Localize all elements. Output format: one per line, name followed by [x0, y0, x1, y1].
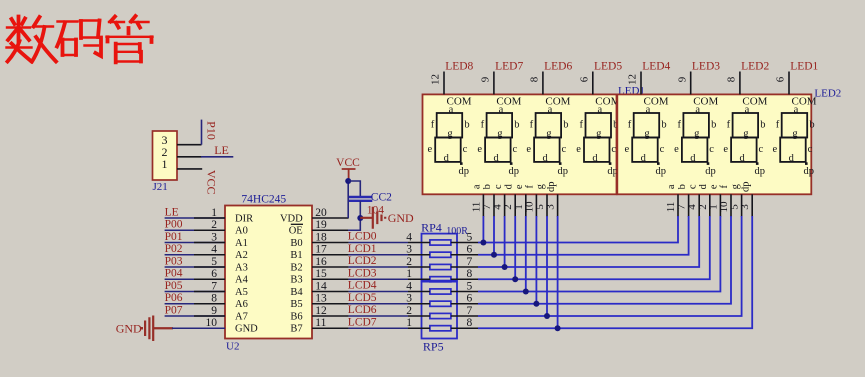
- svg-text:A3: A3: [235, 262, 248, 273]
- svg-text:A1: A1: [235, 238, 248, 249]
- LED2 digit 4 seven-segment glyph: [780, 113, 807, 162]
- svg-text:c: c: [709, 144, 714, 155]
- capacitor CC2 plates: [349, 196, 372, 198]
- svg-text:LED2: LED2: [741, 60, 769, 72]
- RP pin right 5: [451, 242, 478, 244]
- svg-text:P07: P07: [165, 304, 183, 316]
- LED2 segment pin 1 (e): [719, 194, 721, 217]
- junction VCC node: [345, 178, 351, 184]
- svg-text:P06: P06: [165, 292, 183, 304]
- svg-text:b: b: [711, 119, 716, 130]
- svg-text:B6: B6: [290, 311, 302, 322]
- svg-text:8: 8: [467, 268, 473, 280]
- svg-text:A0: A0: [235, 226, 248, 237]
- svg-text:LCD0: LCD0: [348, 231, 377, 243]
- resistor RP5 element 2: [430, 301, 451, 306]
- resistor RP4 element 3: [430, 264, 451, 269]
- junction cap/GND node: [357, 215, 363, 221]
- svg-text:7: 7: [467, 305, 473, 317]
- svg-text:A4: A4: [235, 275, 249, 286]
- svg-text:P05: P05: [165, 280, 183, 292]
- wire LED1 pin 4 vertical: [504, 216, 506, 267]
- svg-text:LED6: LED6: [544, 60, 572, 72]
- RP pin left 3: [408, 254, 430, 256]
- U2 pin 16: [312, 266, 349, 268]
- wire segment row dp (RP output to LED2 pin): [478, 216, 752, 328]
- svg-text:f: f: [628, 119, 632, 130]
- LED1 digit 2 seven-segment glyph: [485, 113, 512, 162]
- wire LED1 pin 2 vertical: [514, 216, 516, 279]
- RP pin left 4: [408, 291, 430, 293]
- svg-text:8: 8: [467, 317, 473, 329]
- svg-text:10: 10: [206, 317, 218, 329]
- resistor RP5 element 1: [430, 289, 451, 294]
- svg-text:c: c: [660, 144, 665, 155]
- svg-text:B4: B4: [290, 287, 303, 298]
- U2 pin 19: [312, 229, 349, 231]
- U2 pin 1: [194, 217, 225, 219]
- svg-text:g: g: [730, 183, 741, 189]
- svg-text:b: b: [464, 119, 469, 130]
- wire VCC to capacitor top: [348, 181, 360, 197]
- svg-text:LCD3: LCD3: [348, 267, 377, 279]
- resistor RP4 element 2: [430, 252, 451, 257]
- LED1 segment pin 7 (b): [493, 194, 495, 217]
- LED2 segment pin 11 (a): [677, 194, 679, 217]
- svg-text:d: d: [690, 153, 696, 164]
- svg-text:9: 9: [211, 305, 217, 317]
- LED1 digit 4 seven-segment glyph: [584, 113, 611, 162]
- wire segment row f (RP output to LED2 pin): [478, 216, 731, 304]
- wire net LE (U2 pin 1): [165, 217, 225, 219]
- svg-text:B7: B7: [290, 324, 302, 335]
- LED display module LED2 body: [617, 94, 811, 194]
- svg-text:5: 5: [467, 280, 473, 292]
- svg-text:b: b: [661, 119, 666, 130]
- wire net LCD6 (U2 pin 12 to RP): [349, 315, 408, 317]
- LED1 segment pin 3 (dp): [557, 194, 559, 217]
- LED2 segment pin 10 (f): [730, 194, 732, 217]
- svg-text:U2: U2: [226, 341, 239, 353]
- svg-text:b: b: [482, 184, 493, 189]
- svg-text:a: a: [794, 104, 799, 115]
- svg-text:6: 6: [211, 268, 217, 280]
- svg-text:d: d: [493, 153, 499, 164]
- wire cap bottom to GND node: [359, 201, 361, 218]
- svg-text:4: 4: [406, 231, 412, 243]
- junction row a / LED1 pin: [480, 240, 486, 246]
- svg-text:c: c: [493, 184, 504, 189]
- svg-text:LED3: LED3: [692, 60, 720, 72]
- wire LED1 pin 3 vertical: [557, 216, 559, 328]
- svg-text:16: 16: [315, 256, 327, 268]
- svg-text:74HC245: 74HC245: [241, 194, 286, 206]
- svg-text:g: g: [535, 183, 546, 189]
- U2 pin 7: [194, 291, 225, 293]
- svg-text:LCD4: LCD4: [348, 280, 377, 292]
- U2 pin 11: [312, 327, 349, 329]
- svg-text:f: f: [431, 119, 435, 130]
- svg-text:dp: dp: [557, 166, 568, 177]
- svg-text:LCD1: LCD1: [348, 243, 377, 255]
- svg-text:P03: P03: [165, 255, 183, 267]
- svg-text:12: 12: [315, 305, 327, 317]
- wire net P05 (U2 pin 7): [165, 291, 225, 293]
- wire net P02 (U2 pin 4): [165, 254, 225, 256]
- LED2 digit 1 seven-segment glyph: [632, 113, 659, 162]
- svg-text:17: 17: [315, 244, 327, 256]
- svg-text:B2: B2: [290, 262, 302, 273]
- svg-text:c: c: [687, 184, 698, 189]
- svg-text:P01: P01: [165, 231, 183, 243]
- svg-text:12: 12: [627, 74, 639, 85]
- svg-text:LCD5: LCD5: [348, 292, 377, 304]
- svg-text:LCD6: LCD6: [348, 304, 377, 316]
- svg-text:14: 14: [315, 280, 327, 292]
- svg-text:d: d: [542, 153, 548, 164]
- svg-text:c: c: [758, 144, 763, 155]
- svg-text:e: e: [514, 184, 525, 189]
- wire net P04 (U2 pin 6): [165, 278, 225, 280]
- LED1 segment pin 11 (a): [482, 194, 484, 217]
- svg-text:b: b: [514, 119, 519, 130]
- svg-text:GND: GND: [388, 211, 414, 225]
- svg-text:g: g: [694, 128, 700, 139]
- svg-text:a: a: [449, 104, 454, 115]
- svg-text:g: g: [792, 128, 798, 139]
- svg-text:LE: LE: [165, 206, 179, 218]
- svg-text:1: 1: [406, 317, 412, 329]
- svg-text:dp: dp: [546, 182, 557, 193]
- svg-text:a: a: [745, 104, 750, 115]
- RP pin left 1: [408, 327, 430, 329]
- LED2 segment pin 2 (d): [709, 194, 711, 217]
- svg-text:e: e: [674, 144, 679, 155]
- LED2 digit 2 seven-segment glyph: [682, 113, 709, 162]
- U2 pin 18: [312, 242, 349, 244]
- wire GND to U2 pin10: [172, 327, 225, 329]
- svg-text:a: a: [646, 104, 651, 115]
- RP pin right 8: [451, 278, 478, 280]
- svg-text:c: c: [808, 144, 813, 155]
- svg-text:3: 3: [739, 204, 751, 210]
- svg-text:7: 7: [467, 256, 473, 268]
- wire net P07 (U2 pin 9): [165, 315, 225, 317]
- svg-text:c: c: [463, 144, 468, 155]
- LED1 digit 4 COM pin: [592, 72, 594, 95]
- wire LED1 pin 10 vertical: [535, 216, 537, 304]
- U2 pin 10: [194, 327, 225, 329]
- svg-text:f: f: [719, 185, 730, 189]
- svg-text:e: e: [624, 144, 629, 155]
- wire net LCD4 (U2 pin 14 to RP): [349, 291, 408, 293]
- svg-text:f: f: [580, 119, 584, 130]
- svg-text:3: 3: [211, 231, 217, 243]
- wire segment row g (RP output to LED2 pin): [478, 216, 742, 316]
- svg-text:11: 11: [315, 317, 326, 329]
- U2 pin 14: [312, 291, 349, 293]
- svg-text:18: 18: [315, 231, 327, 243]
- RP pin left 2: [408, 315, 430, 317]
- svg-text:g: g: [447, 128, 453, 139]
- wire LED1 pin 5 vertical: [546, 216, 548, 316]
- wire cap bottom node down to U2 pin 19 (OE): [348, 218, 360, 230]
- LED1 segment pin 4 (c): [504, 194, 506, 217]
- U2 pin 17: [312, 254, 349, 256]
- svg-text:1: 1: [406, 268, 412, 280]
- svg-text:b: b: [677, 184, 688, 189]
- svg-text:a: a: [666, 184, 677, 189]
- LED2 segment pin 5 (g): [741, 194, 743, 217]
- svg-text:20: 20: [315, 207, 327, 219]
- LED2 digit 3 seven-segment glyph: [731, 113, 758, 162]
- svg-text:P10: P10: [204, 121, 218, 140]
- svg-text:g: g: [546, 128, 552, 139]
- svg-text:2: 2: [406, 305, 412, 317]
- svg-text:dp: dp: [656, 166, 667, 177]
- wire segment row b (RP output to LED2 pin): [478, 216, 689, 255]
- RP pin right 7: [451, 266, 478, 268]
- svg-text:LED5: LED5: [594, 60, 622, 72]
- junction row f / LED1 pin: [533, 301, 539, 307]
- svg-text:1: 1: [162, 157, 168, 171]
- RP pin right 6: [451, 303, 478, 305]
- svg-text:GND: GND: [235, 324, 258, 335]
- svg-text:d: d: [592, 153, 598, 164]
- svg-text:f: f: [677, 119, 681, 130]
- RP pin right 5: [451, 291, 478, 293]
- title 数码管 (red heading): [7, 16, 153, 62]
- svg-text:CC2: CC2: [371, 191, 392, 203]
- svg-text:13: 13: [315, 293, 327, 305]
- RP pin left 1: [408, 278, 430, 280]
- svg-text:5: 5: [211, 256, 217, 268]
- svg-text:2: 2: [211, 219, 217, 231]
- RP pin right 8: [451, 327, 478, 329]
- svg-text:LE: LE: [214, 143, 229, 157]
- svg-text:5: 5: [467, 231, 473, 243]
- wire VCC vertical elbow to U2 pin 20: [347, 181, 349, 218]
- svg-text:LED8: LED8: [445, 60, 473, 72]
- wire net LCD7 (U2 pin 11 to RP): [349, 327, 408, 329]
- resistor RP5 element 3: [430, 313, 451, 318]
- svg-text:a: a: [499, 104, 504, 115]
- RP pin left 4: [408, 242, 430, 244]
- wire segment row c (RP output to LED2 pin): [478, 216, 699, 267]
- svg-text:A5: A5: [235, 287, 248, 298]
- svg-text:f: f: [530, 119, 534, 130]
- svg-text:d: d: [444, 153, 450, 164]
- svg-text:A2: A2: [235, 250, 248, 261]
- svg-text:3: 3: [406, 293, 412, 305]
- junction row b / LED1 pin: [491, 252, 497, 258]
- svg-text:LCD2: LCD2: [348, 255, 377, 267]
- svg-text:8: 8: [211, 293, 217, 305]
- wire net P06 (U2 pin 8): [165, 303, 225, 305]
- svg-text:g: g: [644, 128, 650, 139]
- svg-text:dp: dp: [754, 166, 765, 177]
- junction row e / LED1 pin: [523, 289, 529, 295]
- wire LED1 pin 11 vertical: [482, 216, 484, 243]
- svg-text:3: 3: [406, 244, 412, 256]
- svg-text:B1: B1: [290, 250, 302, 261]
- svg-text:DIR: DIR: [235, 213, 253, 224]
- LED1 digit 3 COM pin: [542, 72, 544, 95]
- svg-text:a: a: [472, 184, 483, 189]
- svg-text:c: c: [561, 144, 566, 155]
- svg-text:e: e: [576, 144, 581, 155]
- U2 pin 13: [312, 303, 349, 305]
- svg-text:d: d: [641, 153, 647, 164]
- svg-text:dp: dp: [804, 166, 815, 177]
- svg-text:1: 1: [211, 207, 217, 219]
- svg-text:RP4: RP4: [421, 221, 442, 235]
- svg-text:6: 6: [579, 76, 591, 82]
- resistor RP4 element 4: [430, 277, 451, 282]
- svg-text:6: 6: [775, 76, 787, 82]
- LED1 segment pin 5 (g): [546, 194, 548, 217]
- svg-text:LED2: LED2: [814, 87, 841, 99]
- svg-text:12: 12: [430, 74, 442, 85]
- LED1 segment pin 10 (f): [535, 194, 537, 217]
- svg-text:P00: P00: [165, 219, 183, 231]
- svg-text:dp: dp: [740, 182, 751, 193]
- svg-text:8: 8: [726, 76, 738, 82]
- U2 pin 20: [312, 217, 349, 219]
- wire net LE (J21): [201, 156, 233, 158]
- LED display module LED1 body: [423, 94, 617, 194]
- svg-text:e: e: [427, 144, 432, 155]
- svg-text:100R: 100R: [446, 226, 468, 237]
- svg-text:dp: dp: [508, 166, 519, 177]
- J21 pin 1: [177, 168, 202, 170]
- svg-text:b: b: [760, 119, 765, 130]
- svg-text:dp: dp: [607, 166, 618, 177]
- wire net LCD3 (U2 pin 15 to RP): [349, 278, 408, 280]
- U2 pin 4: [194, 254, 225, 256]
- U2 pin 5: [194, 266, 225, 268]
- junction row c / LED1 pin: [502, 264, 508, 270]
- RP pin right 6: [451, 254, 478, 256]
- U2 pin 9: [194, 315, 225, 317]
- LED1 segment pin 1 (e): [525, 194, 527, 217]
- wire net LCD0 (U2 pin 18 to RP): [349, 242, 408, 244]
- wire LED1 pin 7 vertical: [493, 216, 495, 255]
- LED2 digit 2 COM pin: [690, 72, 692, 95]
- svg-text:4: 4: [406, 280, 412, 292]
- ground symbol (right, at CC2): [360, 207, 385, 229]
- svg-text:a: a: [597, 104, 602, 115]
- LED2 segment pin 3 (dp): [751, 194, 753, 217]
- power symbol VCC: [342, 169, 356, 181]
- svg-text:e: e: [709, 184, 720, 189]
- svg-text:f: f: [525, 185, 536, 189]
- svg-text:4: 4: [211, 244, 217, 256]
- svg-text:A6: A6: [235, 299, 248, 310]
- svg-text:6: 6: [467, 293, 473, 305]
- wire net LCD2 (U2 pin 16 to RP): [349, 266, 408, 268]
- LED1 digit 3 seven-segment glyph: [534, 113, 561, 162]
- svg-text:f: f: [727, 119, 731, 130]
- U2 pin 12: [312, 315, 349, 317]
- svg-text:9: 9: [676, 76, 688, 82]
- svg-text:P04: P04: [165, 268, 183, 280]
- U2 OE overline: [291, 223, 303, 225]
- IC U2 74HC245 body: [225, 206, 312, 339]
- connector J21 body: [153, 131, 178, 180]
- svg-text:A7: A7: [235, 311, 248, 322]
- svg-text:LCD7: LCD7: [348, 316, 377, 328]
- wire net P10 (vertical): [201, 120, 203, 145]
- svg-text:d: d: [739, 153, 745, 164]
- svg-text:8: 8: [529, 76, 541, 82]
- J21 pin 2: [177, 156, 202, 158]
- svg-text:f: f: [481, 119, 485, 130]
- LED2 segment pin 4 (c): [698, 194, 700, 217]
- wire net LCD5 (U2 pin 13 to RP): [349, 303, 408, 305]
- RP pin right 7: [451, 315, 478, 317]
- svg-text:B5: B5: [290, 299, 302, 310]
- svg-text:3: 3: [545, 204, 557, 210]
- svg-text:g: g: [596, 128, 602, 139]
- svg-text:2: 2: [406, 256, 412, 268]
- svg-text:LED1: LED1: [790, 60, 818, 72]
- wire net LCD1 (U2 pin 17 to RP): [349, 254, 408, 256]
- svg-text:B3: B3: [290, 275, 302, 286]
- svg-text:19: 19: [315, 219, 327, 231]
- wire net P03 (U2 pin 5): [165, 266, 225, 268]
- svg-text:VDD: VDD: [280, 213, 303, 224]
- svg-text:LED7: LED7: [495, 60, 523, 72]
- svg-text:VCC: VCC: [204, 170, 218, 195]
- svg-text:e: e: [772, 144, 777, 155]
- ground symbol (left, U2 pin 10): [142, 316, 173, 341]
- svg-text:b: b: [563, 119, 568, 130]
- svg-text:dp: dp: [705, 166, 716, 177]
- svg-text:a: a: [695, 104, 700, 115]
- svg-text:15: 15: [315, 268, 327, 280]
- RP pin left 2: [408, 266, 430, 268]
- svg-text:VCC: VCC: [336, 157, 360, 169]
- U2 pin 6: [194, 278, 225, 280]
- LED2 segment pin 7 (b): [688, 194, 690, 217]
- svg-text:OE: OE: [289, 226, 303, 237]
- wire segment row e (RP output to LED2 pin): [478, 216, 720, 292]
- svg-text:e: e: [723, 144, 728, 155]
- svg-text:c: c: [611, 144, 616, 155]
- LED1 digit 2 COM pin: [493, 72, 495, 95]
- resistor RP5 element 4: [430, 326, 451, 331]
- svg-text:6: 6: [467, 244, 473, 256]
- resistor network RP5 box: [422, 282, 458, 339]
- resistor network RP4 box: [422, 234, 458, 281]
- wire segment row a (RP output to LED2 pin): [478, 216, 678, 243]
- svg-text:c: c: [512, 144, 517, 155]
- junction row d / LED1 pin: [512, 276, 518, 282]
- U2 pin 3: [194, 242, 225, 244]
- LED1 digit 1 seven-segment glyph: [435, 113, 462, 162]
- LED2 digit 1 COM pin: [640, 72, 642, 95]
- LED2 digit 4 COM pin: [788, 72, 790, 95]
- svg-text:g: g: [497, 128, 503, 139]
- svg-text:g: g: [743, 128, 749, 139]
- svg-text:f: f: [776, 119, 780, 130]
- wire net P01 (U2 pin 3): [165, 242, 225, 244]
- U2 pin 2: [194, 229, 225, 231]
- wire LED1 pin 1 vertical: [525, 216, 527, 292]
- wire segment row d (RP output to LED2 pin): [478, 216, 710, 279]
- svg-text:e: e: [526, 144, 531, 155]
